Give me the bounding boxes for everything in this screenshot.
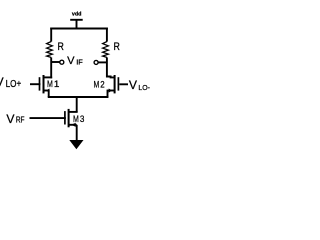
svg-text:V: V xyxy=(129,78,138,92)
svg-text:V: V xyxy=(6,112,15,126)
svg-text:3: 3 xyxy=(80,113,85,124)
svg-text:V: V xyxy=(67,55,75,67)
svg-text:LO-: LO- xyxy=(138,83,150,92)
svg-text:M: M xyxy=(94,78,100,89)
svg-text:IF: IF xyxy=(76,57,83,66)
svg-text:vdd: vdd xyxy=(72,12,82,18)
svg-text:1: 1 xyxy=(54,78,60,89)
svg-text:R: R xyxy=(113,41,119,53)
svg-text:R: R xyxy=(58,41,64,53)
svg-text:M: M xyxy=(47,78,53,89)
svg-text:V: V xyxy=(0,75,4,89)
svg-text:LO+: LO+ xyxy=(6,79,22,90)
svg-text:2: 2 xyxy=(100,78,104,89)
svg-text:RF: RF xyxy=(16,115,25,125)
svg-text:M: M xyxy=(73,113,79,124)
